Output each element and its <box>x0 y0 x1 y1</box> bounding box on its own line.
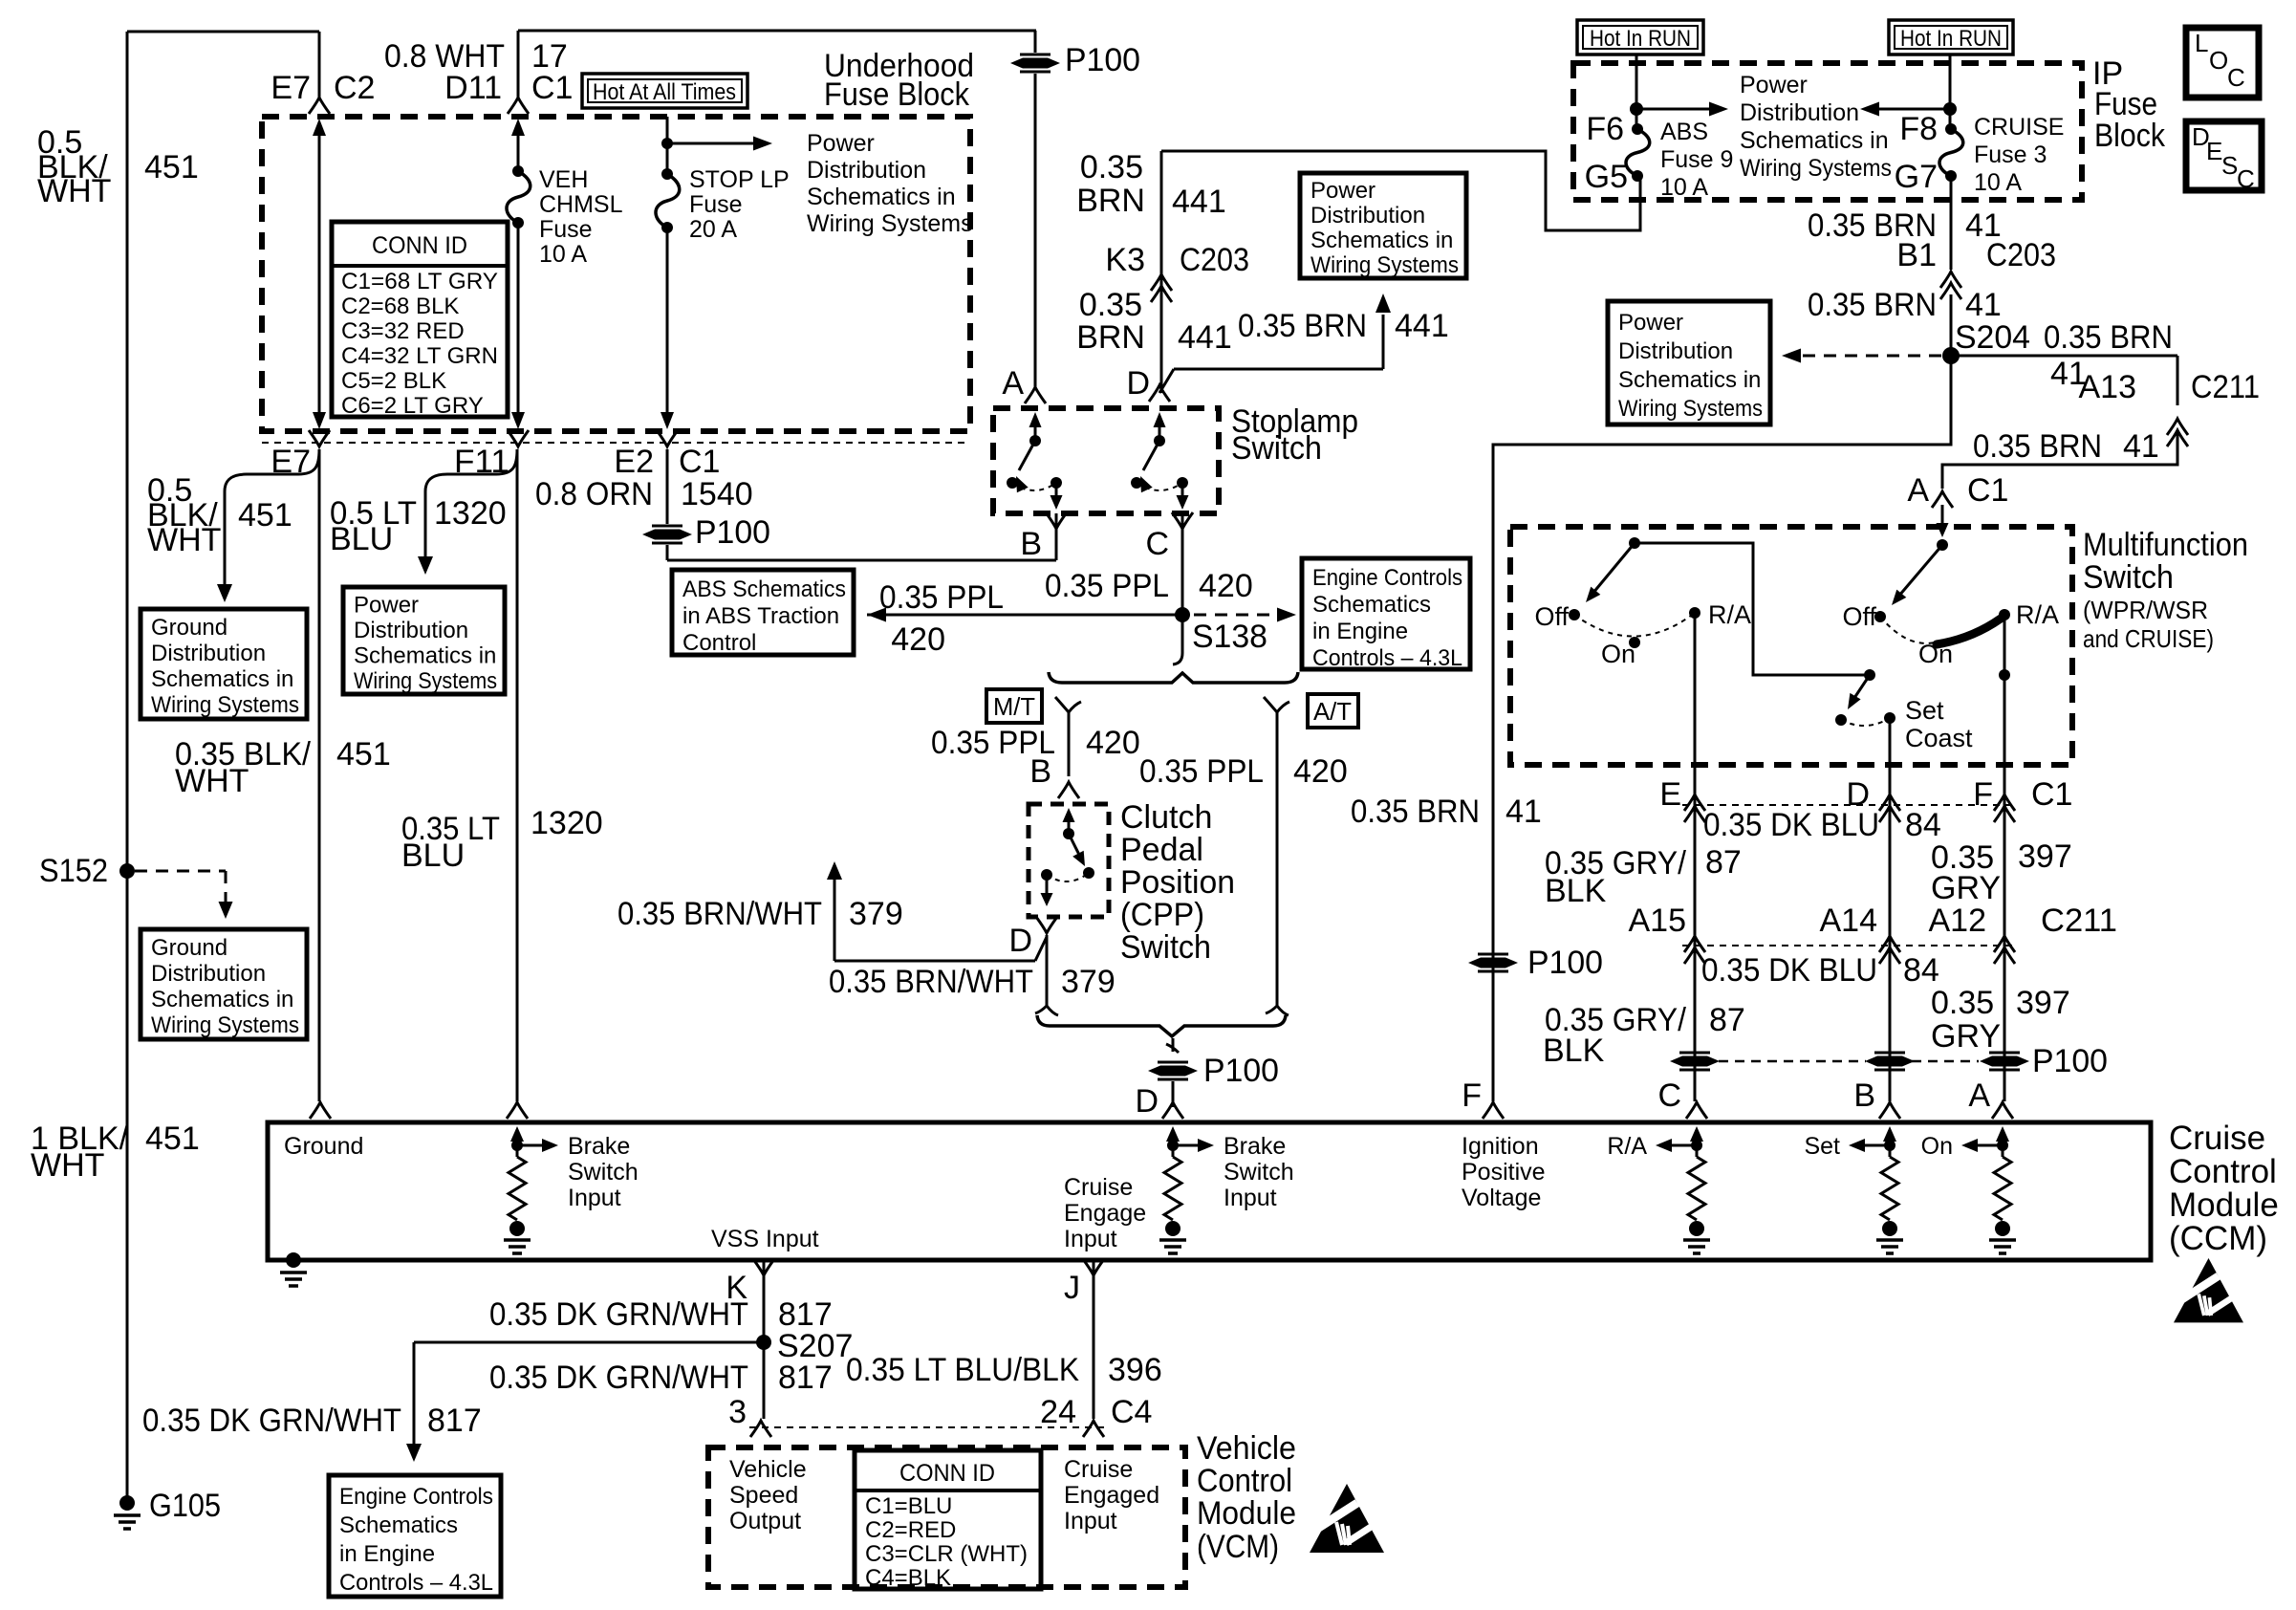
svg-text:ABS Schematics: ABS Schematics <box>682 577 846 602</box>
svg-text:0.35 PPL: 0.35 PPL <box>879 579 1004 616</box>
svg-text:Ground: Ground <box>151 615 227 641</box>
svg-text:Ground: Ground <box>284 1133 363 1160</box>
svg-text:A: A <box>1968 1077 1990 1114</box>
svg-text:Power: Power <box>807 130 875 157</box>
svg-text:84: 84 <box>1905 807 1941 843</box>
svg-text:41: 41 <box>1505 794 1542 830</box>
svg-text:Schematics in: Schematics in <box>151 666 293 692</box>
svg-text:C: C <box>1657 1077 1681 1114</box>
svg-text:0.35 BRN/WHT: 0.35 BRN/WHT <box>617 896 822 932</box>
svg-text:WHT: WHT <box>37 173 111 209</box>
svg-text:CHMSL: CHMSL <box>539 191 623 218</box>
svg-text:Schematics in: Schematics in <box>807 184 956 210</box>
svg-text:CRUISE: CRUISE <box>1974 114 2064 141</box>
svg-text:C4=BLK: C4=BLK <box>865 1565 951 1591</box>
svg-text:Ignition: Ignition <box>1462 1133 1539 1160</box>
svg-text:Module: Module <box>2169 1186 2279 1224</box>
svg-text:24: 24 <box>1040 1394 1076 1430</box>
svg-text:0.35 PPL: 0.35 PPL <box>1139 753 1264 790</box>
svg-text:C: C <box>1145 526 1169 562</box>
svg-text:BLK: BLK <box>1545 873 1607 909</box>
svg-text:Fuse: Fuse <box>539 216 593 243</box>
svg-text:397: 397 <box>2018 838 2072 875</box>
svg-text:10 A: 10 A <box>1974 169 2022 196</box>
svg-text:817: 817 <box>778 1360 833 1396</box>
svg-text:E7: E7 <box>271 70 311 106</box>
svg-text:C1: C1 <box>2031 776 2072 813</box>
svg-text:Schematics in: Schematics in <box>151 987 293 1012</box>
svg-text:C1: C1 <box>679 444 720 480</box>
svg-text:Input: Input <box>568 1185 621 1211</box>
svg-text:CONN ID: CONN ID <box>899 1460 995 1487</box>
svg-text:K3: K3 <box>1105 242 1145 278</box>
svg-text:Switch: Switch <box>1224 1159 1294 1186</box>
svg-text:Engage: Engage <box>1064 1200 1146 1227</box>
svg-text:S138: S138 <box>1192 619 1267 655</box>
svg-text:Schematics in: Schematics in <box>1618 367 1761 393</box>
svg-text:Ground: Ground <box>151 935 227 961</box>
svg-text:87: 87 <box>1709 1002 1745 1038</box>
svg-text:ABS: ABS <box>1660 119 1708 145</box>
svg-text:VSS Input: VSS Input <box>711 1226 819 1252</box>
svg-text:(CCM): (CCM) <box>2169 1220 2267 1257</box>
svg-text:in ABS Traction: in ABS Traction <box>682 603 839 629</box>
svg-text:C4=32 LT GRN: C4=32 LT GRN <box>341 343 498 369</box>
svg-text:D11: D11 <box>444 70 502 106</box>
svg-text:R/A: R/A <box>1607 1133 1647 1160</box>
svg-text:Control: Control <box>2169 1153 2277 1190</box>
svg-text:84: 84 <box>1903 952 1939 989</box>
svg-text:G105: G105 <box>149 1488 221 1524</box>
svg-text:Input: Input <box>1224 1185 1277 1211</box>
svg-text:0.35 BRN: 0.35 BRN <box>1238 308 1367 344</box>
svg-text:Switch: Switch <box>1231 430 1322 467</box>
svg-text:C1: C1 <box>1967 472 2008 509</box>
svg-text:Hot At All Times: Hot At All Times <box>593 79 736 105</box>
svg-text:Power: Power <box>1740 72 1808 98</box>
svg-text:L: L <box>2195 29 2208 57</box>
svg-text:R/A: R/A <box>1708 600 1751 629</box>
svg-text:Wiring Systems: Wiring Systems <box>1740 155 1892 182</box>
svg-text:R/A: R/A <box>2016 600 2059 629</box>
svg-text:Fuse: Fuse <box>689 191 743 218</box>
svg-text:P100: P100 <box>695 514 770 551</box>
svg-text:F: F <box>1462 1077 1482 1114</box>
svg-text:0.35 PPL: 0.35 PPL <box>1045 568 1169 604</box>
svg-text:Engine Controls: Engine Controls <box>339 1484 493 1510</box>
svg-text:Schematics: Schematics <box>339 1512 458 1538</box>
svg-text:S204: S204 <box>1955 319 2030 356</box>
svg-text:Schematics in: Schematics in <box>354 643 496 669</box>
svg-text:Wiring Systems: Wiring Systems <box>151 1012 299 1038</box>
svg-text:420: 420 <box>1293 753 1348 790</box>
svg-text:Power: Power <box>354 593 419 619</box>
svg-text:Distribution: Distribution <box>1310 203 1425 228</box>
svg-text:P100: P100 <box>2032 1043 2108 1079</box>
svg-text:0.35 LT BLU/BLK: 0.35 LT BLU/BLK <box>846 1352 1079 1388</box>
svg-text:Fuse 9: Fuse 9 <box>1660 146 1733 173</box>
svg-text:F: F <box>1973 776 1993 813</box>
svg-text:A12: A12 <box>1929 903 1987 939</box>
svg-text:A: A <box>1002 365 1024 402</box>
svg-text:WHT: WHT <box>31 1147 104 1184</box>
svg-text:0.35 BRN: 0.35 BRN <box>1351 794 1480 830</box>
svg-text:0.35 BRN: 0.35 BRN <box>2044 319 2173 356</box>
svg-text:A/T: A/T <box>1313 697 1352 726</box>
svg-text:Wiring Systems: Wiring Systems <box>354 668 497 694</box>
svg-text:Pedal: Pedal <box>1120 832 1203 868</box>
svg-text:O: O <box>2209 46 2228 75</box>
svg-text:41: 41 <box>1965 287 2002 323</box>
svg-text:Clutch: Clutch <box>1120 799 1212 836</box>
svg-text:817: 817 <box>427 1403 482 1439</box>
svg-text:Switch: Switch <box>568 1159 639 1186</box>
svg-text:D: D <box>1135 1083 1159 1120</box>
svg-text:Fuse 3: Fuse 3 <box>1974 141 2047 168</box>
svg-text:VEH: VEH <box>539 166 588 193</box>
svg-text:Controls – 4.3L: Controls – 4.3L <box>1312 645 1462 671</box>
svg-text:BLK: BLK <box>1543 1033 1605 1069</box>
svg-text:A: A <box>1907 472 1929 509</box>
svg-text:WHT: WHT <box>175 763 249 799</box>
svg-text:B: B <box>1029 753 1051 790</box>
svg-text:Schematics in: Schematics in <box>1740 127 1889 154</box>
svg-text:Set: Set <box>1905 696 1944 725</box>
svg-text:and CRUISE): and CRUISE) <box>2083 624 2214 653</box>
svg-text:Output: Output <box>729 1508 801 1534</box>
svg-text:Vehicle: Vehicle <box>729 1456 807 1483</box>
svg-text:Brake: Brake <box>1224 1133 1286 1160</box>
svg-text:10 A: 10 A <box>1660 174 1708 201</box>
svg-text:CONN ID: CONN ID <box>372 232 467 259</box>
svg-text:441: 441 <box>1172 184 1226 220</box>
svg-text:0.35 BRN/WHT: 0.35 BRN/WHT <box>829 964 1033 1000</box>
svg-text:A13: A13 <box>2079 369 2137 405</box>
svg-text:Distribution: Distribution <box>1740 99 1859 126</box>
svg-text:Fuse Block: Fuse Block <box>824 76 970 113</box>
svg-text:Control: Control <box>1197 1463 1292 1499</box>
svg-text:Coast: Coast <box>1905 724 1973 752</box>
svg-text:M/T: M/T <box>993 692 1035 721</box>
svg-text:Speed: Speed <box>729 1482 798 1509</box>
svg-text:in Engine: in Engine <box>339 1541 435 1567</box>
svg-text:A15: A15 <box>1629 903 1687 939</box>
svg-text:C211: C211 <box>2191 369 2260 405</box>
svg-text:451: 451 <box>145 1120 200 1157</box>
svg-text:C6=2 LT GRY: C6=2 LT GRY <box>341 393 484 419</box>
svg-text:Off: Off <box>1842 602 1876 631</box>
svg-text:420: 420 <box>1086 725 1140 761</box>
svg-text:C1: C1 <box>531 70 573 106</box>
svg-text:Schematics in: Schematics in <box>1310 228 1453 253</box>
svg-text:Brake: Brake <box>568 1133 630 1160</box>
svg-text:Hot In RUN: Hot In RUN <box>1900 26 2002 52</box>
svg-text:(WPR/WSR: (WPR/WSR <box>2083 596 2208 624</box>
svg-text:20 A: 20 A <box>689 216 737 243</box>
svg-text:Engaged: Engaged <box>1064 1482 1159 1509</box>
svg-text:C3=32 RED: C3=32 RED <box>341 318 465 344</box>
svg-text:E: E <box>1659 776 1681 813</box>
svg-text:0.35: 0.35 <box>1931 985 1994 1021</box>
svg-text:D: D <box>1126 365 1150 402</box>
svg-text:420: 420 <box>1199 568 1253 604</box>
svg-text:F8: F8 <box>1899 111 1938 147</box>
svg-text:BRN: BRN <box>1076 183 1145 219</box>
svg-text:Control: Control <box>682 630 756 656</box>
svg-text:C: C <box>2227 63 2245 92</box>
svg-text:1320: 1320 <box>434 495 507 532</box>
svg-text:Module: Module <box>1197 1495 1296 1532</box>
svg-text:Voltage: Voltage <box>1462 1185 1541 1211</box>
svg-text:C211: C211 <box>2041 903 2117 939</box>
svg-text:Block: Block <box>2094 118 2166 154</box>
svg-text:Distribution: Distribution <box>151 961 266 987</box>
svg-text:E: E <box>2206 137 2222 165</box>
svg-text:S152: S152 <box>39 853 108 889</box>
svg-text:379: 379 <box>1061 964 1116 1000</box>
svg-text:451: 451 <box>238 497 292 533</box>
svg-text:STOP LP: STOP LP <box>689 166 790 193</box>
svg-text:Distribution: Distribution <box>1618 338 1733 364</box>
svg-text:Distribution: Distribution <box>151 641 266 666</box>
svg-text:GRY: GRY <box>1931 870 2001 906</box>
svg-text:Vehicle: Vehicle <box>1197 1430 1296 1467</box>
svg-text:in Engine: in Engine <box>1312 619 1408 644</box>
svg-text:10 A: 10 A <box>539 241 587 268</box>
svg-text:BRN: BRN <box>1076 319 1145 356</box>
svg-text:B: B <box>1853 1077 1875 1114</box>
svg-text:C203: C203 <box>1986 237 2056 273</box>
svg-text:397: 397 <box>2016 985 2070 1021</box>
svg-text:C2=RED: C2=RED <box>865 1517 956 1543</box>
svg-text:Multifunction: Multifunction <box>2083 527 2248 563</box>
svg-text:0.35: 0.35 <box>1080 149 1143 185</box>
svg-text:441: 441 <box>1395 308 1449 344</box>
svg-text:Controls – 4.3L: Controls – 4.3L <box>339 1570 493 1596</box>
svg-text:0.35: 0.35 <box>1079 287 1142 323</box>
svg-text:Cruise: Cruise <box>2169 1120 2265 1157</box>
svg-text:B: B <box>1020 526 1042 562</box>
svg-text:C1=68 LT GRY: C1=68 LT GRY <box>341 269 498 294</box>
svg-text:On: On <box>1921 1133 1953 1160</box>
svg-text:BLU: BLU <box>330 521 393 557</box>
svg-text:0.35 DK GRN/WHT: 0.35 DK GRN/WHT <box>489 1296 748 1333</box>
svg-text:Off: Off <box>1534 602 1569 631</box>
svg-text:Wiring Systems: Wiring Systems <box>151 692 299 718</box>
svg-text:BLU: BLU <box>401 838 465 874</box>
svg-text:F6: F6 <box>1586 111 1624 147</box>
svg-text:P100: P100 <box>1527 945 1603 981</box>
svg-text:C3=CLR (WHT): C3=CLR (WHT) <box>865 1541 1028 1567</box>
svg-text:1320: 1320 <box>531 805 603 841</box>
svg-text:Schematics: Schematics <box>1312 592 1431 618</box>
svg-text:41: 41 <box>2123 428 2159 465</box>
svg-text:Cruise: Cruise <box>1064 1174 1133 1201</box>
svg-text:Wiring Systems: Wiring Systems <box>1310 252 1459 278</box>
svg-text:379: 379 <box>849 896 903 932</box>
svg-text:C4: C4 <box>1111 1394 1152 1430</box>
svg-text:Set: Set <box>1804 1133 1840 1160</box>
svg-text:Power: Power <box>1310 178 1375 204</box>
svg-text:A14: A14 <box>1820 903 1878 939</box>
svg-text:396: 396 <box>1108 1352 1162 1388</box>
svg-text:0.35 DK BLU: 0.35 DK BLU <box>1701 952 1877 989</box>
svg-text:Input: Input <box>1064 1508 1117 1534</box>
svg-text:J: J <box>1064 1270 1080 1306</box>
svg-text:0.35 DK GRN/WHT: 0.35 DK GRN/WHT <box>142 1403 401 1439</box>
svg-text:G5: G5 <box>1585 159 1628 195</box>
svg-text:0.35 BRN: 0.35 BRN <box>1973 428 2102 465</box>
svg-text:Positive: Positive <box>1462 1159 1546 1186</box>
svg-text:Engine Controls: Engine Controls <box>1312 565 1462 591</box>
svg-text:3: 3 <box>728 1394 747 1430</box>
svg-text:D: D <box>1008 923 1032 959</box>
svg-text:On: On <box>1601 640 1635 668</box>
svg-text:0.35 BRN: 0.35 BRN <box>1808 287 1937 323</box>
svg-text:C5=2 BLK: C5=2 BLK <box>341 368 446 394</box>
svg-text:Switch: Switch <box>2083 559 2174 596</box>
svg-text:Cruise: Cruise <box>1064 1456 1133 1483</box>
svg-text:Wiring Systems: Wiring Systems <box>1618 396 1763 422</box>
svg-text:420: 420 <box>891 621 945 658</box>
svg-text:P100: P100 <box>1203 1053 1279 1089</box>
svg-text:On: On <box>1918 640 1953 668</box>
svg-text:GRY: GRY <box>1931 1018 2001 1055</box>
svg-text:Position: Position <box>1120 864 1235 901</box>
svg-text:451: 451 <box>336 736 391 772</box>
svg-text:1540: 1540 <box>681 476 753 512</box>
svg-text:Power: Power <box>1618 310 1683 336</box>
svg-text:Distribution: Distribution <box>354 618 468 643</box>
svg-text:S: S <box>2221 151 2238 180</box>
svg-text:Input: Input <box>1064 1226 1117 1252</box>
svg-text:Distribution: Distribution <box>807 157 926 184</box>
svg-text:Hot In RUN: Hot In RUN <box>1590 26 1691 52</box>
svg-text:(CPP): (CPP) <box>1120 897 1204 933</box>
svg-text:E2: E2 <box>614 444 654 480</box>
svg-text:0.35 DK BLU: 0.35 DK BLU <box>1703 807 1879 843</box>
svg-text:Wiring Systems: Wiring Systems <box>807 210 973 237</box>
svg-text:C2: C2 <box>334 70 375 106</box>
svg-text:87: 87 <box>1705 844 1742 881</box>
svg-text:0.35 DK GRN/WHT: 0.35 DK GRN/WHT <box>489 1360 748 1396</box>
svg-text:C1=BLU: C1=BLU <box>865 1493 952 1519</box>
svg-text:441: 441 <box>1178 319 1232 356</box>
svg-text:G7: G7 <box>1895 159 1938 195</box>
svg-text:C203: C203 <box>1180 242 1249 278</box>
svg-text:0.8 ORN: 0.8 ORN <box>535 476 653 512</box>
svg-text:(VCM): (VCM) <box>1197 1529 1279 1565</box>
svg-text:451: 451 <box>144 149 199 185</box>
svg-text:Switch: Switch <box>1120 929 1211 966</box>
svg-text:B1: B1 <box>1896 237 1937 273</box>
svg-text:C: C <box>2237 164 2255 193</box>
svg-text:P100: P100 <box>1065 42 1140 78</box>
svg-text:C2=68 BLK: C2=68 BLK <box>341 294 459 319</box>
svg-text:WHT: WHT <box>147 522 221 558</box>
